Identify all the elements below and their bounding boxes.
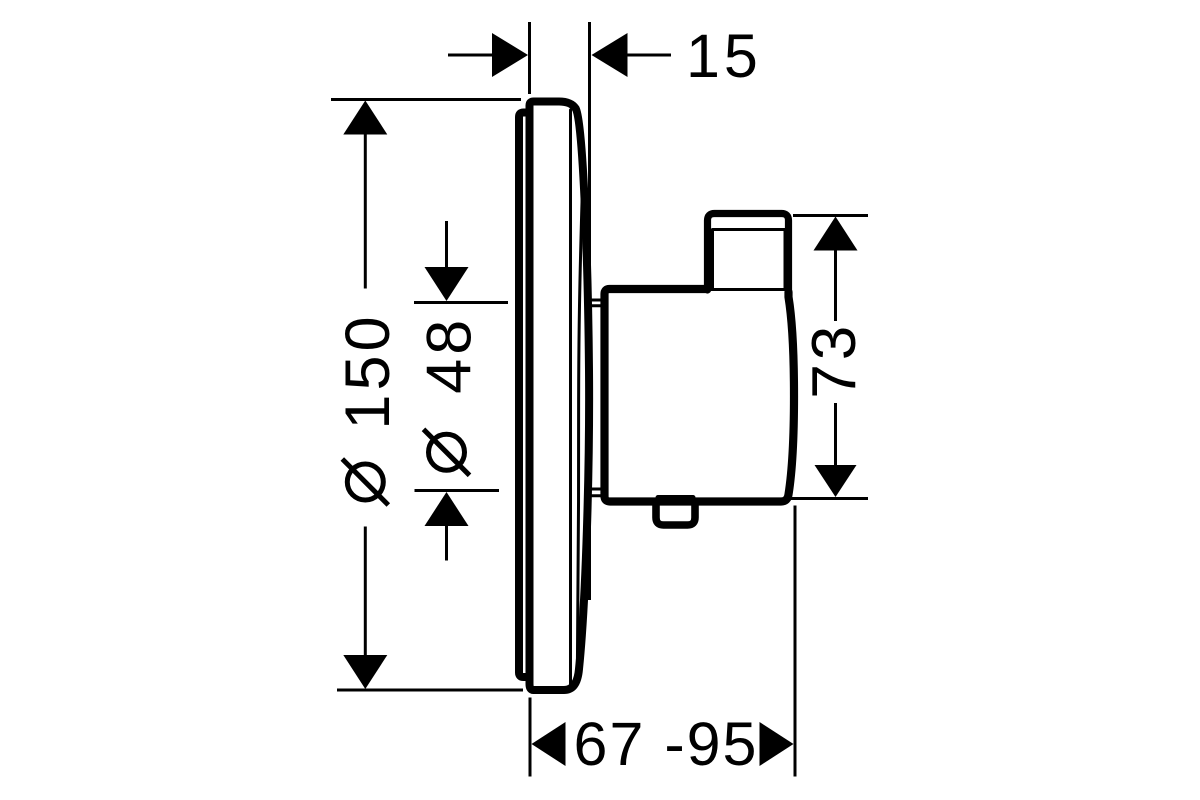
svg-text:15: 15 <box>686 22 762 90</box>
svg-text:150: 150 <box>333 312 403 429</box>
svg-text:73: 73 <box>800 322 869 399</box>
svg-text:48: 48 <box>415 316 485 394</box>
svg-text:67 -95: 67 -95 <box>574 710 759 778</box>
